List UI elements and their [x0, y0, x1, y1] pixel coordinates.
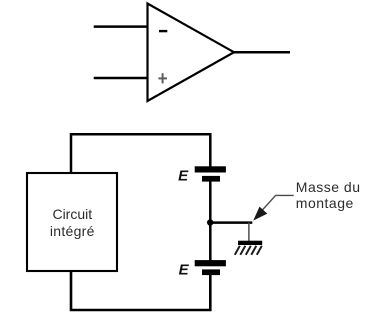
ground hatch strokes: [235, 246, 262, 255]
svg-text:E: E: [178, 168, 189, 185]
annotation arrowhead: [253, 207, 267, 221]
annotation leader line: [257, 195, 294, 216]
wire output: [234, 51, 290, 54]
plus label (non-inverting pin): [158, 73, 167, 83]
wire non-inverting input: [94, 77, 148, 80]
svg-text:Circuit: Circuit: [52, 206, 92, 222]
label E (battery B2): [179, 261, 190, 278]
wire inverting input: [94, 25, 148, 28]
IC box U2: [27, 173, 117, 271]
battery B1 long plate: [195, 166, 226, 172]
svg-text:intégré: intégré: [50, 223, 95, 239]
battery B1 short plate: [202, 176, 220, 182]
op-amp U1: [148, 4, 235, 102]
wire bottom rail: [71, 271, 210, 310]
wire node to ground: [210, 221, 253, 224]
label Circuit intégré: [50, 206, 95, 239]
wire between batteries: [209, 181, 212, 261]
ground lead: [248, 223, 250, 242]
svg-text:montage: montage: [296, 195, 354, 211]
ground bar: [238, 241, 262, 245]
battery B2 long plate: [195, 260, 226, 266]
svg-text:E: E: [179, 261, 190, 278]
label Masse du montage: [296, 179, 361, 211]
minus label (inverting pin): [159, 30, 167, 32]
node junction dot: [207, 219, 213, 225]
battery B2 short plate: [202, 269, 220, 275]
label E (battery B1): [178, 168, 189, 185]
wire top rail: [71, 134, 210, 173]
svg-text:Masse du: Masse du: [296, 179, 361, 195]
